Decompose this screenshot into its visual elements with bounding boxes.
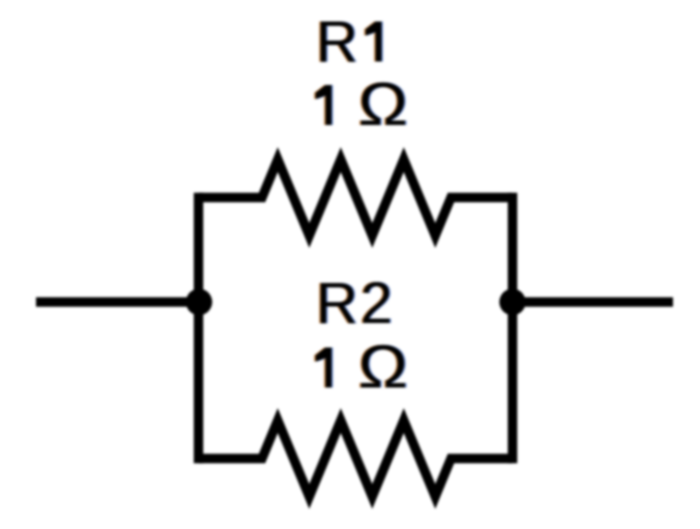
- resistor R2 (bottom zigzag with connecting wires): [199, 421, 513, 497]
- text labels (black): [316, 10, 408, 401]
- node B (right junction dot): [499, 289, 525, 315]
- node A (left junction dot): [186, 289, 212, 315]
- text subpixel fringe (blue, right): [317, 10, 409, 401]
- wire: left vertical branch: [194, 193, 204, 464]
- wire: left input lead: [36, 297, 199, 307]
- wire: right vertical branch: [508, 193, 518, 464]
- wire: right output lead: [512, 297, 673, 307]
- resistor R1 (top zigzag with connecting wires): [199, 160, 513, 236]
- text subpixel fringe (orange, left): [314, 10, 406, 401]
